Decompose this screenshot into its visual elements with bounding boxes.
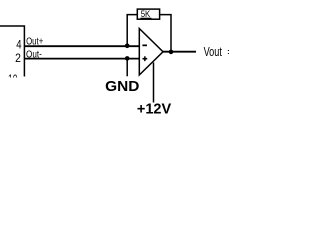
svg-text:Out-: Out- bbox=[26, 49, 42, 60]
svg-text:=: = bbox=[227, 44, 229, 59]
svg-text:4: 4 bbox=[16, 38, 22, 52]
svg-text:2: 2 bbox=[15, 51, 21, 65]
svg-text:+12V: +12V bbox=[137, 101, 172, 117]
svg-text:GND: GND bbox=[105, 78, 139, 95]
svg-text:Out+: Out+ bbox=[26, 37, 43, 48]
svg-text:5K: 5K bbox=[141, 9, 151, 19]
svg-text:Vout: Vout bbox=[204, 44, 223, 59]
